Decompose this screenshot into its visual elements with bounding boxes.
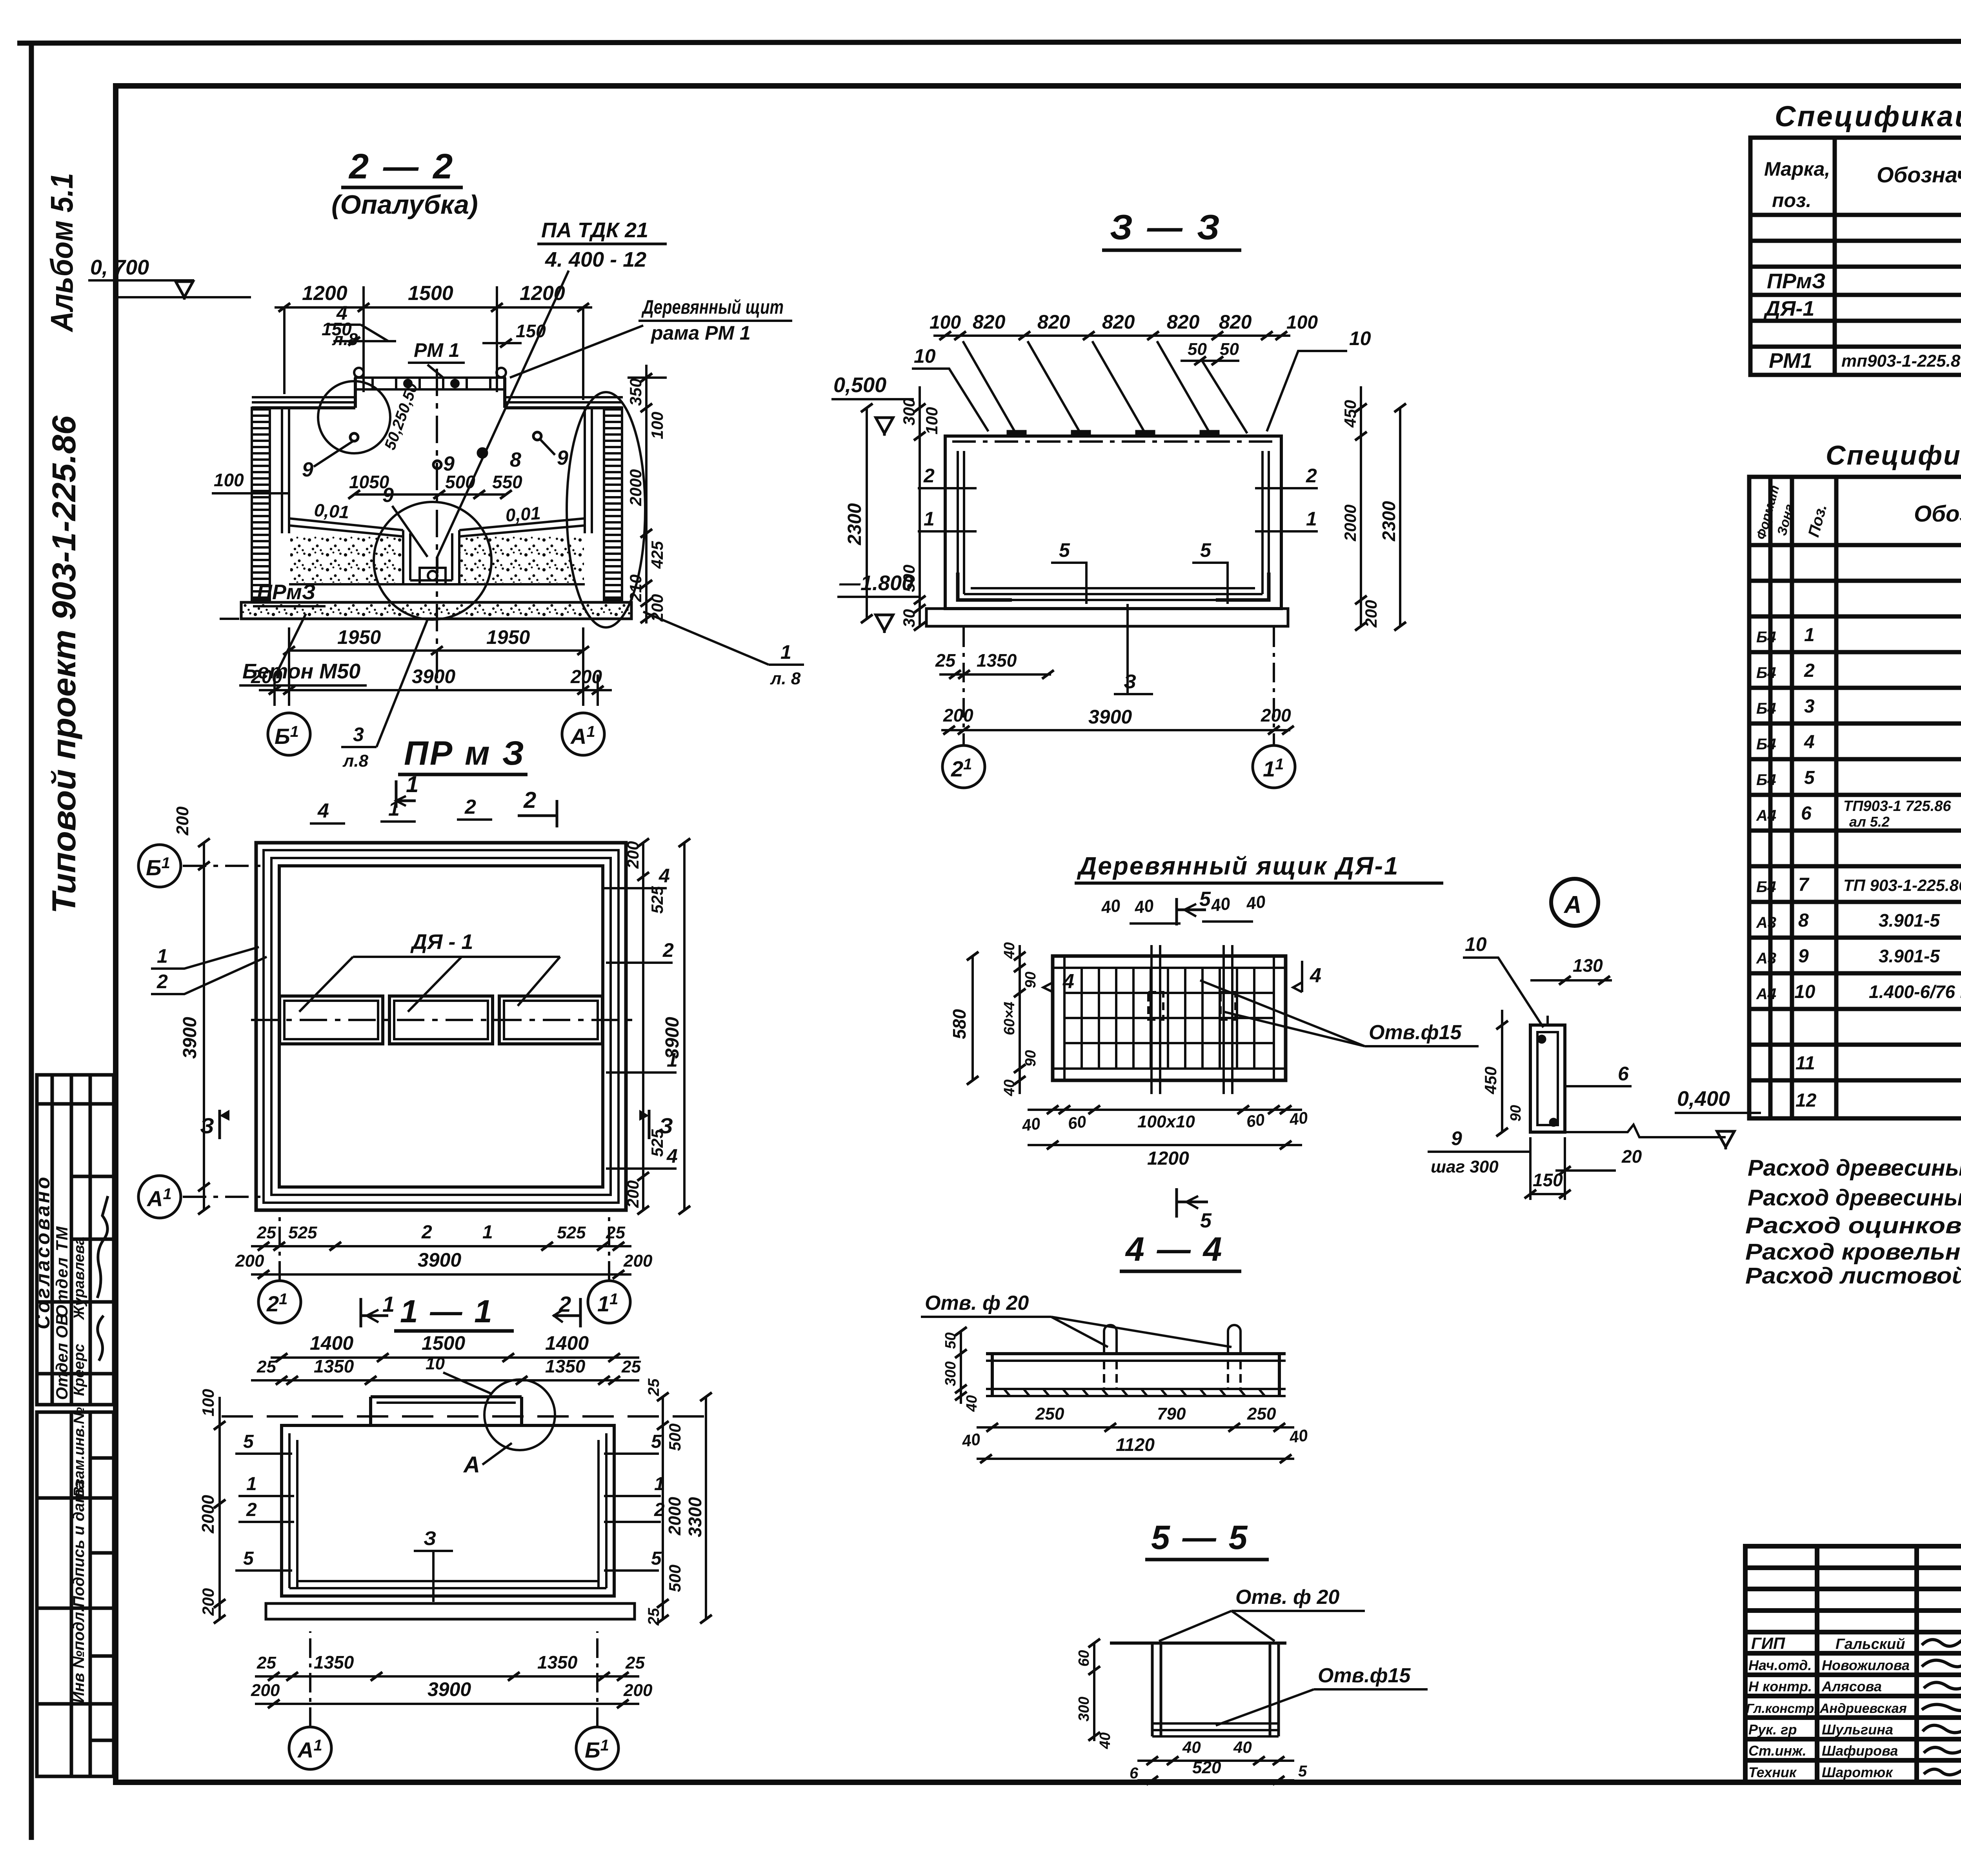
grid marker Б' bottom — [576, 1727, 618, 1769]
svg-text:12: 12 — [1795, 1090, 1817, 1111]
svg-text:(Опалубка): (Опалубка) — [331, 190, 478, 220]
detail bar — [1530, 1025, 1565, 1132]
GROUP: plan — [138, 772, 690, 1331]
svg-text:40: 40 — [1097, 1732, 1113, 1749]
hatched formwork bands — [252, 408, 270, 600]
svg-text:л.8: л.8 — [342, 751, 369, 771]
bolts 4-4 — [1104, 1325, 1241, 1390]
row 7 — [1756, 874, 1961, 896]
svg-text:1950: 1950 — [486, 626, 530, 648]
grid marker A' — [562, 713, 604, 755]
top profile with notch — [282, 1424, 371, 1427]
svg-text:40: 40 — [1233, 1738, 1252, 1756]
bottom dims — [255, 1675, 639, 1678]
grid marker 2' plan — [258, 1281, 301, 1323]
svg-text:350: 350 — [626, 378, 645, 406]
svg-text:2: 2 — [421, 1222, 432, 1243]
plan outer walls — [256, 843, 626, 1210]
GROUP: sec55 — [1076, 1519, 1428, 1785]
svg-text:500: 500 — [666, 1423, 684, 1451]
svg-text:100: 100 — [214, 470, 244, 490]
svg-text:Б4: Б4 — [1756, 700, 1776, 717]
svg-text:2000: 2000 — [198, 1495, 218, 1534]
svg-text:Гальский: Гальский — [1835, 1636, 1905, 1652]
callout circle pit — [374, 502, 491, 620]
grid marker А' bottom — [289, 1727, 331, 1769]
svg-text:1350: 1350 — [537, 1652, 578, 1672]
svg-text:20: 20 — [1621, 1146, 1642, 1167]
svg-text:25: 25 — [256, 1653, 276, 1672]
svg-text:2: 2 — [156, 971, 168, 993]
svg-text:25: 25 — [256, 1357, 276, 1376]
central pit — [403, 530, 459, 584]
svg-text:рама РМ 1: рама РМ 1 — [650, 322, 751, 344]
svg-text:820: 820 — [1037, 311, 1070, 333]
svg-text:820: 820 — [1102, 311, 1135, 333]
right dims — [662, 1397, 664, 1619]
svg-text:РМ 1: РМ 1 — [414, 339, 460, 361]
svg-text:90: 90 — [1022, 972, 1039, 988]
svg-text:200: 200 — [623, 1681, 653, 1700]
svg-text:1: 1 — [157, 945, 168, 967]
corner bars — [958, 573, 1012, 600]
svg-text:1350: 1350 — [545, 1356, 586, 1376]
svg-text:1050: 1050 — [349, 472, 389, 492]
floor slopes — [289, 518, 403, 530]
svg-text:50: 50 — [942, 1332, 959, 1349]
svg-text:90: 90 — [1022, 1050, 1039, 1067]
svg-text:25: 25 — [645, 1608, 662, 1626]
svg-text:25: 25 — [625, 1653, 645, 1672]
table2 grid — [1749, 477, 1961, 1118]
svg-text:Журавлева: Журавлева — [71, 1237, 87, 1320]
dya1 grid box — [1053, 956, 1286, 1080]
svg-text:Рук. гр: Рук. гр — [1748, 1721, 1797, 1738]
svg-text:4: 4 — [1062, 970, 1074, 993]
svg-text:А4: А4 — [1756, 807, 1776, 824]
svg-text:5: 5 — [243, 1431, 254, 1452]
svg-text:2: 2 — [1306, 465, 1317, 487]
svg-text:8: 8 — [1798, 910, 1809, 931]
svg-text:ПА ТДК 21: ПА ТДК 21 — [541, 218, 648, 242]
svg-text:3900: 3900 — [1088, 706, 1132, 728]
grid verticals — [1082, 968, 1254, 1069]
svg-text:2300: 2300 — [844, 503, 865, 545]
4-4 left dims — [960, 1331, 962, 1404]
svg-text:1200: 1200 — [520, 282, 565, 305]
svg-text:130: 130 — [1573, 955, 1603, 976]
svg-text:200: 200 — [943, 705, 973, 725]
svg-text:10: 10 — [1794, 982, 1815, 1002]
5-5 left dims — [1093, 1643, 1095, 1741]
plan bottom dims — [251, 1245, 631, 1247]
svg-text:2000: 2000 — [1341, 505, 1359, 542]
svg-text:40: 40 — [1001, 942, 1018, 959]
svg-text:1: 1 — [924, 508, 935, 530]
svg-text:300: 300 — [942, 1362, 959, 1386]
svg-text:200: 200 — [173, 806, 192, 836]
svg-text:Гл.констр.: Гл.констр. — [1746, 1701, 1818, 1716]
cut 4 marks — [1094, 939, 1126, 940]
svg-text:100x10: 100x10 — [1137, 1112, 1195, 1131]
grid marker Б' plan — [138, 845, 181, 887]
svg-text:Альбом 5.1: Альбом 5.1 — [44, 173, 79, 333]
svg-text:л. 8: л. 8 — [770, 669, 801, 688]
svg-text:5: 5 — [1804, 767, 1815, 788]
svg-text:90: 90 — [1508, 1105, 1524, 1122]
grid marker B' — [268, 713, 310, 755]
svg-text:тп903-1-225.86: тп903-1-225.86 — [1841, 351, 1961, 371]
svg-text:10: 10 — [1349, 327, 1371, 349]
GROUP: detA — [1428, 879, 1761, 1200]
svg-text:2: 2 — [246, 1500, 257, 1520]
svg-text:ГИП: ГИП — [1751, 1634, 1785, 1652]
row 12 — [1795, 1087, 1961, 1112]
svg-text:Алясова: Алясова — [1821, 1678, 1882, 1694]
svg-text:4: 4 — [1310, 964, 1321, 987]
dim 450 — [1501, 1010, 1503, 1132]
GROUP: dya1 — [949, 852, 1479, 1232]
svg-text:100: 100 — [922, 407, 941, 434]
svg-text:ПРмЗ: ПРмЗ — [257, 580, 316, 604]
svg-text:0,500: 0,500 — [833, 373, 886, 397]
svg-text:9: 9 — [1798, 946, 1809, 967]
svg-text:Б4: Б4 — [1756, 736, 1776, 753]
grid horizontals — [1064, 993, 1274, 1043]
section 3 cut marks — [218, 1110, 221, 1139]
anchor plates on top — [1008, 431, 1025, 436]
svg-text:580: 580 — [949, 1009, 970, 1039]
pad — [266, 1603, 635, 1619]
svg-text:РМ1: РМ1 — [1769, 349, 1812, 373]
svg-text:60: 60 — [1067, 1112, 1088, 1133]
svg-text:0,400: 0,400 — [1677, 1087, 1730, 1111]
section 1-1 top dims — [271, 1356, 639, 1359]
svg-text:200: 200 — [235, 1251, 264, 1271]
svg-text:5: 5 — [1199, 888, 1211, 911]
svg-text:30: 30 — [900, 609, 918, 627]
svg-text:450: 450 — [1481, 1067, 1500, 1094]
svg-text:Отдел ОВ: Отдел ОВ — [53, 1314, 71, 1400]
svg-text:5 — 5: 5 — 5 — [1151, 1519, 1249, 1556]
svg-text:820: 820 — [1167, 311, 1200, 333]
svg-text:500: 500 — [666, 1565, 684, 1592]
top dim row 1200 1500 1200 — [275, 306, 592, 309]
svg-text:9: 9 — [557, 447, 568, 469]
svg-text:А: А — [1563, 891, 1582, 918]
svg-text:250: 250 — [1247, 1404, 1276, 1423]
5-5 drawing — [1110, 1641, 1286, 1645]
svg-text:5: 5 — [243, 1548, 254, 1569]
svg-text:1400: 1400 — [545, 1332, 589, 1354]
svg-text:Б4: Б4 — [1756, 629, 1776, 646]
svg-text:5: 5 — [1200, 539, 1212, 561]
svg-text:6: 6 — [1801, 803, 1812, 824]
grid marker 1' — [1273, 627, 1275, 745]
svg-text:2: 2 — [662, 939, 674, 961]
leader from ПА ТДК to pit — [437, 271, 569, 573]
left chain — [919, 386, 921, 627]
svg-text:ДЯ-1: ДЯ-1 — [1763, 297, 1814, 320]
svg-text:Отв.ф15: Отв.ф15 — [1318, 1664, 1411, 1687]
svg-text:425: 425 — [648, 541, 666, 569]
svg-text:3900: 3900 — [412, 665, 455, 687]
svg-text:Н контр.: Н контр. — [1748, 1678, 1812, 1694]
svg-text:2: 2 — [1804, 660, 1815, 681]
svg-text:ТП903-1 725.86: ТП903-1 725.86 — [1843, 798, 1951, 814]
svg-text:1: 1 — [1306, 508, 1317, 530]
svg-text:1: 1 — [1804, 625, 1815, 645]
svg-text:2000: 2000 — [626, 469, 645, 506]
hatch band — [1004, 1389, 1265, 1396]
table1 grid — [1750, 138, 1961, 375]
svg-text:Подпись и дата: Подпись и дата — [70, 1480, 87, 1607]
svg-text:3300: 3300 — [685, 1497, 705, 1537]
svg-text:Расход листовой стали: Расход листовой стали — [1745, 1263, 1961, 1289]
ground dash line — [222, 1415, 718, 1418]
svg-text:1: 1 — [406, 772, 418, 797]
svg-text:2 — 2: 2 — 2 — [348, 147, 455, 186]
svg-text:З: З — [200, 1113, 214, 1138]
svg-text:4: 4 — [1804, 732, 1815, 753]
svg-text:25: 25 — [645, 1378, 662, 1396]
row 8 — [1756, 910, 1961, 932]
svg-text:З — З: З — З — [1110, 208, 1222, 247]
wall tops — [252, 406, 355, 409]
svg-text:Деревянный ящик ДЯ-1: Деревянный ящик ДЯ-1 — [1077, 852, 1399, 880]
svg-text:100: 100 — [930, 312, 961, 333]
right dim chain B 2300 — [866, 408, 868, 619]
svg-text:40: 40 — [1288, 1426, 1309, 1447]
svg-text:Андриевская: Андриевская — [1819, 1701, 1907, 1716]
svg-text:4: 4 — [336, 302, 347, 324]
svg-text:Расход оцинкованной стали: Расход оцинкованной стали — [1745, 1213, 1961, 1238]
svg-text:А3: А3 — [1756, 950, 1776, 967]
svg-text:50: 50 — [1188, 340, 1207, 359]
svg-text:л.8: л.8 — [332, 330, 358, 349]
svg-text:Отв.ф15: Отв.ф15 — [1369, 1021, 1462, 1044]
svg-text:790: 790 — [1157, 1404, 1186, 1423]
svg-text:150: 150 — [516, 321, 546, 341]
svg-text:2: 2 — [523, 787, 536, 813]
svg-text:5: 5 — [1200, 1209, 1212, 1232]
GROUP: sec44 — [921, 1231, 1309, 1463]
svg-text:200: 200 — [570, 667, 602, 687]
svg-text:10: 10 — [426, 1354, 445, 1373]
dya1 bottom dims — [1028, 1109, 1302, 1111]
grid marker 2' — [962, 627, 965, 745]
svg-text:Инв №подл.: Инв №подл. — [70, 1607, 87, 1703]
svg-text:40: 40 — [1021, 1114, 1042, 1135]
svg-text:Согласовано: Согласовано — [32, 1174, 54, 1329]
svg-text:9: 9 — [302, 458, 313, 481]
svg-text:525: 525 — [288, 1223, 317, 1242]
svg-text:40: 40 — [1001, 1080, 1018, 1096]
svg-text:Расход древесины на деревян: Расход древесины на деревянные ящики — [1748, 1155, 1961, 1181]
svg-text:250: 250 — [1035, 1404, 1064, 1423]
svg-text:2: 2 — [464, 796, 476, 818]
svg-text:Б4: Б4 — [1756, 878, 1776, 896]
bottom dim 1950 1950 — [289, 649, 583, 652]
svg-text:ДЯ - 1: ДЯ - 1 — [410, 930, 473, 954]
svg-text:ал 5.2: ал 5.2 — [1849, 814, 1890, 830]
row 9 — [1756, 946, 1961, 967]
svg-text:200: 200 — [199, 1588, 217, 1616]
pad — [926, 609, 1288, 626]
svg-text:3900: 3900 — [662, 1017, 683, 1059]
svg-text:100: 100 — [1286, 312, 1318, 333]
svg-text:5: 5 — [651, 1548, 662, 1569]
grid marker А' plan — [138, 1176, 181, 1218]
svg-text:60: 60 — [1245, 1110, 1266, 1131]
cut mark 2 right of title — [579, 1298, 582, 1327]
svg-text:0,01: 0,01 — [505, 503, 541, 525]
svg-text:А4: А4 — [1756, 985, 1776, 1003]
cut 5 bottom — [1175, 1188, 1178, 1218]
svg-text:Нач.отд.: Нач.отд. — [1748, 1657, 1812, 1673]
svg-text:Б4: Б4 — [1756, 664, 1776, 682]
svg-text:1: 1 — [382, 1292, 395, 1316]
GROUP: table2 — [1749, 440, 1961, 1118]
svg-text:З: З — [424, 1527, 436, 1549]
svg-text:4 — 4: 4 — 4 — [1125, 1231, 1223, 1268]
wooden frame РМ1 row — [354, 368, 506, 389]
4-4 bottom dims — [977, 1426, 1294, 1429]
svg-text:1400: 1400 — [310, 1332, 353, 1354]
svg-text:1350: 1350 — [314, 1356, 354, 1376]
svg-text:1: 1 — [246, 1474, 257, 1494]
svg-text:4: 4 — [666, 1145, 678, 1167]
svg-text:3900: 3900 — [427, 1678, 471, 1700]
svg-text:1 — 1: 1 — 1 — [400, 1294, 494, 1329]
5-5 bottom dims — [1137, 1760, 1294, 1762]
svg-text:4: 4 — [317, 800, 329, 822]
svg-text:8: 8 — [510, 449, 521, 471]
top dim row — [933, 334, 1290, 337]
dim 150 — [1530, 1193, 1565, 1195]
cut mark 1 left of title — [360, 1298, 362, 1327]
GROUP: sec33 — [0, 0, 0, 0]
svg-text:4. 400 - 12: 4. 400 - 12 — [545, 248, 646, 271]
svg-text:10: 10 — [1465, 933, 1487, 955]
svg-text:40: 40 — [964, 1395, 980, 1412]
svg-text:3900: 3900 — [180, 1017, 200, 1059]
svg-text:З: З — [1124, 671, 1136, 693]
svg-text:0, 700: 0, 700 — [90, 256, 149, 279]
svg-text:7: 7 — [1798, 874, 1810, 895]
svg-text:Обозначение: Обозначение — [1877, 162, 1961, 187]
bottom dims 25 1350 — [939, 673, 1051, 676]
svg-text:Спецификация элементов склада: Спецификация элементов склада соли — [1775, 100, 1961, 133]
bottom dim 200 3900 200 — [941, 729, 1290, 731]
svg-text:200: 200 — [251, 1681, 280, 1700]
anchor diagonals — [963, 341, 1016, 433]
channel profile — [986, 1352, 1286, 1355]
right chains — [1360, 386, 1362, 627]
svg-text:Б4: Б4 — [1756, 771, 1776, 789]
rebar dots and 9 labels — [350, 433, 358, 441]
svg-text:З: З — [659, 1113, 673, 1138]
svg-text:Техник: Техник — [1748, 1764, 1797, 1780]
concrete speckle floors — [290, 536, 403, 583]
signature squiggles — [97, 1196, 108, 1298]
svg-text:550: 550 — [492, 472, 522, 492]
row 6 karkas — [1756, 798, 1961, 830]
svg-text:25: 25 — [935, 650, 956, 671]
svg-text:Марка,: Марка, — [1764, 158, 1830, 180]
svg-text:1350: 1350 — [314, 1652, 354, 1672]
svg-text:40: 40 — [1245, 892, 1267, 914]
svg-text:2000: 2000 — [665, 1497, 684, 1536]
svg-text:1500: 1500 — [422, 1332, 465, 1354]
GROUP: rashod — [1745, 1152, 1961, 1289]
svg-text:525: 525 — [557, 1223, 586, 1242]
svg-text:4: 4 — [659, 865, 670, 887]
svg-text:2: 2 — [923, 465, 935, 487]
svg-text:1.400-6/76 в. 1: 1.400-6/76 в. 1 — [1869, 982, 1961, 1002]
svg-text:60×4: 60×4 — [1001, 1002, 1018, 1035]
left dims — [218, 1397, 221, 1619]
mid dims 1050 500 550 — [354, 493, 506, 496]
bottom dim 200 3900 200 — [259, 689, 612, 691]
GROUP: titleblock — [1745, 1546, 1961, 1818]
callout circle left — [318, 381, 390, 453]
GROUP: sec33 — [900, 208, 1406, 788]
svg-text:0,01: 0,01 — [313, 500, 350, 522]
svg-text:А: А — [463, 1452, 480, 1478]
svg-text:820: 820 — [973, 311, 1006, 333]
dim 130 — [1530, 979, 1612, 982]
svg-text:3: 3 — [353, 723, 364, 745]
svg-text:525: 525 — [648, 886, 666, 914]
signature squiggles — [1922, 1625, 1961, 1646]
grid marker 1' plan — [588, 1281, 630, 1323]
svg-text:Ст.инж.: Ст.инж. — [1748, 1743, 1806, 1759]
svg-text:Обозначение: Обозначение — [1914, 501, 1961, 527]
stamp column upper block — [37, 1075, 114, 1405]
svg-text:210: 210 — [626, 574, 645, 602]
svg-text:200: 200 — [624, 1180, 642, 1208]
callout ellipse right wall — [567, 392, 645, 627]
bottom pad concrete — [241, 602, 631, 619]
svg-text:3.901-5: 3.901-5 — [1879, 946, 1940, 966]
svg-text:1350: 1350 — [977, 650, 1017, 671]
svg-text:200: 200 — [251, 667, 282, 687]
GROUP: sec22 — [88, 147, 920, 774]
svg-text:2300: 2300 — [1379, 501, 1399, 542]
svg-text:Отв. ф 20: Отв. ф 20 — [925, 1292, 1029, 1314]
bolts — [1148, 945, 1235, 1094]
right dim chain A — [645, 365, 648, 624]
svg-text:40: 40 — [960, 1430, 982, 1451]
svg-text:40: 40 — [1100, 896, 1122, 918]
svg-text:25: 25 — [256, 1223, 276, 1242]
svg-text:100: 100 — [648, 412, 666, 439]
plan boxes ДЯ-1 — [280, 996, 383, 1044]
callout circle А — [484, 1380, 555, 1450]
svg-text:1120: 1120 — [1116, 1434, 1155, 1455]
svg-text:поз.: поз. — [1772, 189, 1812, 211]
dim 20 — [1564, 1159, 1565, 1172]
svg-text:11: 11 — [1795, 1053, 1815, 1074]
svg-text:1: 1 — [780, 641, 791, 663]
svg-text:ТП 903-1-225.86: ТП 903-1-225.86 — [1843, 876, 1961, 894]
svg-text:3.901-5: 3.901-5 — [1879, 910, 1940, 931]
row 10 — [1756, 982, 1961, 1003]
svg-text:300: 300 — [1076, 1697, 1092, 1721]
svg-text:200: 200 — [624, 841, 642, 869]
svg-text:Спецификация монолитного приям: Спецификация монолитного приямка ПРм-3 — [1826, 440, 1961, 471]
